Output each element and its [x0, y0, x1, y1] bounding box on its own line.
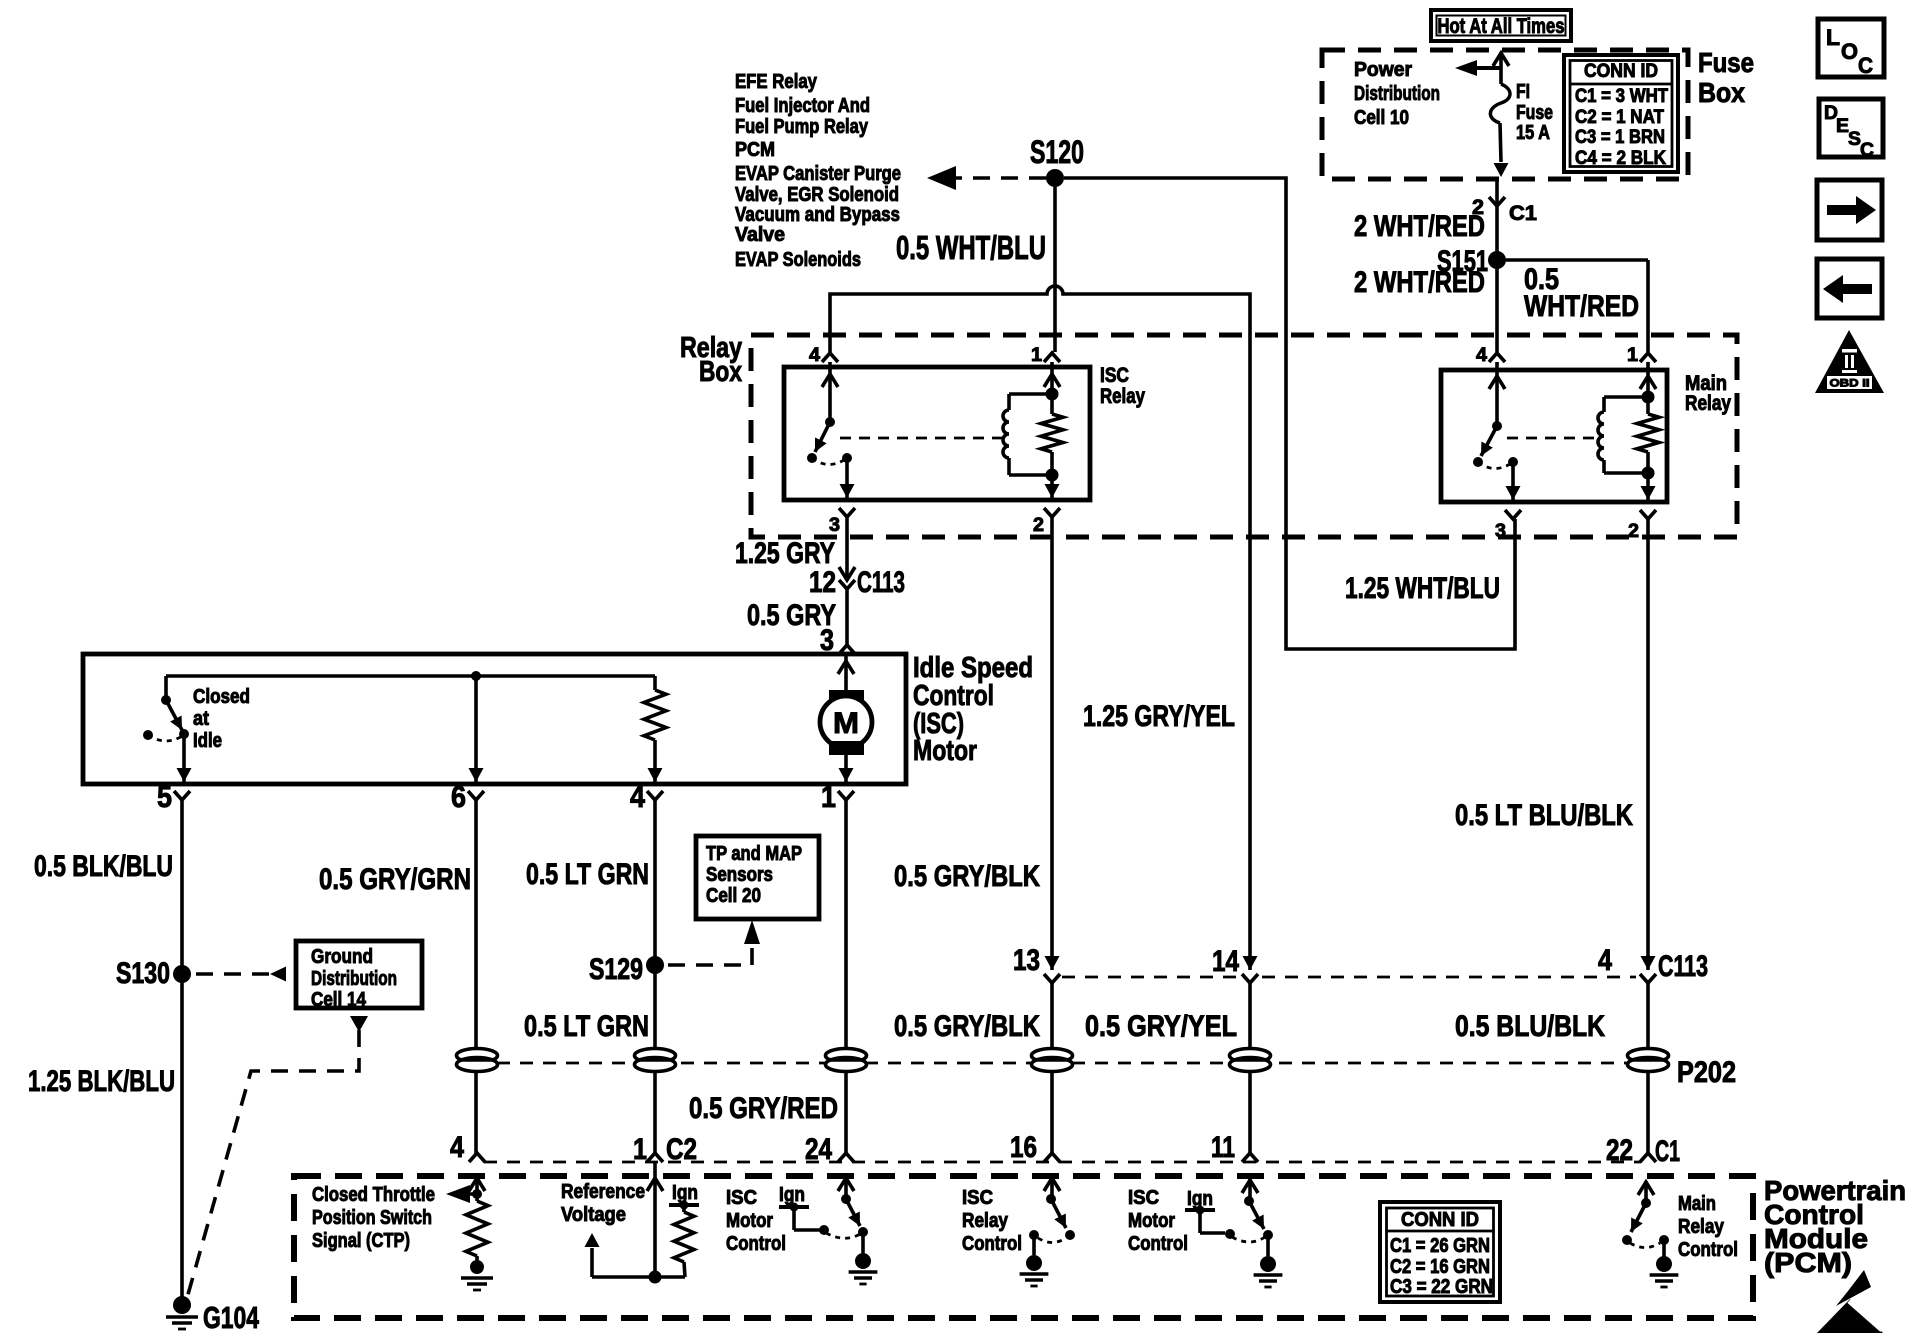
ISC motor M motor	[844, 656, 848, 690]
svg-text:Cell 14: Cell 14	[311, 989, 367, 1011]
connector P202 dashed line	[497, 1062, 1628, 1065]
svg-text:C113: C113	[857, 566, 905, 599]
relay U1 ISC Relay box	[784, 367, 1090, 500]
svg-text:12: 12	[809, 566, 836, 599]
svg-text:4: 4	[809, 345, 820, 366]
PCM pin 22 C1	[1640, 1153, 1656, 1162]
svg-text:Relay: Relay	[962, 1210, 1009, 1232]
svg-text:M: M	[833, 707, 859, 740]
svg-text:Signal (CTP): Signal (CTP)	[312, 1230, 410, 1252]
ISC motor pin 1	[838, 791, 854, 800]
svg-text:Position Switch: Position Switch	[312, 1207, 432, 1229]
svg-text:C1: C1	[1655, 1135, 1680, 1168]
svg-text:Sensors: Sensors	[706, 864, 773, 886]
wire ISC relay pin 3 to connector C113 pin 12	[845, 517, 849, 577]
svg-text:C: C	[1858, 53, 1873, 78]
dashed path ground distribution to G104	[350, 1016, 368, 1032]
PCM pin 4	[469, 1153, 485, 1162]
fuse F1 15A	[1499, 52, 1503, 84]
main relay resistor	[1646, 362, 1650, 414]
svg-text:Motor: Motor	[1128, 1210, 1175, 1232]
wire pin5 down to G104	[180, 800, 184, 1302]
PCM pin 16	[1044, 1153, 1060, 1162]
ISC motor internal bus	[166, 674, 655, 678]
icon ESD warning	[1836, 1270, 1871, 1306]
svg-text:1: 1	[633, 1133, 647, 1166]
svg-text:Control: Control	[1128, 1233, 1188, 1255]
svg-text:C1 = 3 WHT: C1 = 3 WHT	[1575, 86, 1668, 107]
PCM pin 1 C2	[647, 1153, 663, 1162]
ground distribution cell 14 box	[296, 941, 422, 1008]
svg-text:Closed Throttle: Closed Throttle	[312, 1184, 435, 1206]
svg-text:14: 14	[1212, 945, 1239, 978]
connector C113 pin 12	[839, 567, 855, 580]
svg-text:EVAP Solenoids: EVAP Solenoids	[735, 249, 861, 271]
svg-text:2 WHT/RED: 2 WHT/RED	[1354, 210, 1485, 243]
svg-text:S120: S120	[1030, 134, 1084, 170]
dashed link S129 to TP and MAP sensors	[668, 948, 752, 965]
svg-text:1.25 BLK/BLU: 1.25 BLK/BLU	[28, 1065, 175, 1098]
icon DESC	[1819, 99, 1883, 157]
wire pin6 down to PCM pin 4	[474, 800, 478, 1154]
ISC relay switch output to pin 3	[845, 458, 849, 498]
ISC relay linkage dashed	[840, 437, 1002, 440]
svg-text:Idle: Idle	[193, 730, 222, 752]
svg-text:Fuel Pump Relay: Fuel Pump Relay	[735, 116, 869, 138]
svg-text:22: 22	[1606, 1134, 1633, 1167]
PCM dashed outline	[294, 1176, 1753, 1318]
wire pin4 down to PCM pin 1	[653, 800, 657, 1154]
svg-text:Ground: Ground	[311, 946, 373, 968]
svg-text:Reference: Reference	[561, 1181, 645, 1203]
relay box dashed outline	[751, 335, 1737, 537]
svg-text:Valve, EGR Solenoid: Valve, EGR Solenoid	[735, 184, 899, 206]
wire branch to ISC relay pin 4 and pin 11 line	[830, 286, 1250, 970]
svg-text:C3 = 22 GRN: C3 = 22 GRN	[1390, 1276, 1493, 1298]
svg-text:Main: Main	[1678, 1193, 1716, 1215]
ground G104	[173, 1296, 191, 1314]
icon OBD II triangle	[1815, 330, 1884, 393]
PCM pin 11	[1242, 1153, 1258, 1162]
svg-text:Closed: Closed	[193, 686, 250, 708]
svg-text:0.5 GRY/YEL: 0.5 GRY/YEL	[1085, 1010, 1237, 1043]
ISC motor pin 6 wire	[474, 676, 478, 782]
svg-text:S129: S129	[589, 953, 643, 986]
svg-text:C113: C113	[1658, 950, 1708, 983]
svg-text:Control: Control	[1678, 1239, 1738, 1261]
svg-text:CONN ID: CONN ID	[1584, 61, 1658, 82]
svg-text:Cell 20: Cell 20	[706, 885, 761, 907]
svg-text:Valve: Valve	[735, 224, 785, 246]
svg-text:16: 16	[1010, 1131, 1037, 1164]
svg-text:ISC: ISC	[1128, 1187, 1159, 1209]
icon arrow right	[1817, 180, 1882, 240]
svg-text:2 WHT/RED: 2 WHT/RED	[1354, 266, 1485, 299]
svg-text:PCM: PCM	[735, 139, 775, 161]
svg-text:S130: S130	[116, 957, 170, 990]
svg-text:11: 11	[1211, 1131, 1235, 1164]
main relay switch output to pin 3	[1511, 462, 1515, 500]
svg-text:C2: C2	[666, 1133, 697, 1166]
wire dashed S120 to loads	[945, 176, 1046, 180]
svg-text:C1 = 26 GRN: C1 = 26 GRN	[1390, 1235, 1490, 1257]
component ISC motor box	[83, 654, 906, 784]
svg-text:0.5 GRY/RED: 0.5 GRY/RED	[689, 1092, 838, 1125]
svg-text:Vacuum and Bypass: Vacuum and Bypass	[735, 204, 900, 226]
svg-text:Relay: Relay	[1100, 385, 1145, 408]
svg-text:Ign: Ign	[779, 1184, 805, 1206]
svg-text:24: 24	[805, 1133, 832, 1166]
svg-text:Control: Control	[962, 1233, 1022, 1255]
ISC motor CTP switch	[164, 676, 168, 700]
svg-text:O: O	[1841, 39, 1858, 64]
svg-text:C4 = 2 BLK: C4 = 2 BLK	[1575, 148, 1666, 169]
svg-text:G104: G104	[203, 1300, 260, 1335]
svg-text:ISC: ISC	[962, 1187, 993, 1209]
svg-text:0.5 BLK/BLU: 0.5 BLK/BLU	[34, 850, 173, 883]
svg-text:2: 2	[1033, 515, 1044, 536]
svg-text:0.5 LT GRN: 0.5 LT GRN	[524, 1010, 649, 1043]
svg-text:15 A: 15 A	[1516, 122, 1550, 144]
ISC motor pin 4	[647, 791, 663, 800]
svg-text:4: 4	[630, 779, 646, 814]
PCM CONN ID table	[1380, 1202, 1500, 1302]
ISC relay resistor	[1050, 362, 1054, 414]
svg-text:0.5 LT GRN: 0.5 LT GRN	[526, 858, 649, 891]
connector C113 pin 13	[1045, 956, 1060, 970]
svg-text:Control: Control	[726, 1233, 786, 1255]
connector C1 pin 2	[1489, 197, 1505, 206]
svg-text:Box: Box	[1698, 77, 1745, 108]
svg-text:WHT/RED: WHT/RED	[1524, 290, 1639, 323]
svg-text:TP and MAP: TP and MAP	[706, 843, 802, 865]
connector P202 oval pin at 846	[826, 1049, 867, 1072]
svg-text:Voltage: Voltage	[561, 1204, 626, 1226]
connector C113 pin 4	[1641, 956, 1656, 970]
wire 0.5 GRY to ISC motor pin 3	[845, 589, 849, 645]
relay U2 Main Relay box	[1441, 370, 1667, 502]
svg-text:FI: FI	[1516, 81, 1530, 103]
svg-text:Box: Box	[699, 356, 742, 388]
svg-text:2: 2	[1628, 521, 1639, 542]
main relay pin 4	[1489, 353, 1505, 362]
svg-text:Relay: Relay	[1678, 1216, 1725, 1238]
wire S151 to main relay pin 1	[1506, 258, 1648, 262]
svg-text:4: 4	[450, 1131, 464, 1164]
svg-text:0.5 GRY/GRN: 0.5 GRY/GRN	[319, 863, 471, 896]
connector P202 oval pin at 1648	[1628, 1049, 1669, 1072]
wire S120 right and down to main relay pin 3 loop	[1064, 178, 1515, 649]
ISC motor resistor	[653, 676, 657, 690]
svg-text:0.5 GRY/BLK: 0.5 GRY/BLK	[894, 860, 1040, 893]
svg-text:C2 = 1 NAT: C2 = 1 NAT	[1575, 107, 1664, 128]
svg-text:OBD II: OBD II	[1830, 378, 1870, 390]
svg-text:Distribution: Distribution	[1354, 83, 1440, 105]
svg-text:0.5 WHT/BLU: 0.5 WHT/BLU	[896, 229, 1046, 266]
PCM pin 24	[838, 1153, 854, 1162]
svg-text:1: 1	[821, 779, 836, 814]
svg-text:ISC: ISC	[1100, 364, 1129, 387]
wire fuse output to S151	[1495, 179, 1499, 352]
svg-text:(PCM): (PCM)	[1764, 1247, 1852, 1278]
main relay pin 2	[1640, 510, 1656, 519]
svg-text:Motor: Motor	[726, 1210, 773, 1232]
svg-text:4: 4	[1476, 345, 1487, 366]
svg-text:0.5 BLU/BLK: 0.5 BLU/BLK	[1455, 1010, 1605, 1043]
svg-text:0.5 GRY/BLK: 0.5 GRY/BLK	[894, 1010, 1040, 1043]
connector P202 oval pin at 655	[635, 1049, 676, 1072]
svg-text:Fuse: Fuse	[1516, 102, 1553, 124]
wire pin1 down to PCM pin 24	[844, 800, 848, 1154]
main relay pin 1	[1640, 353, 1656, 362]
svg-text:Distribution: Distribution	[311, 968, 397, 990]
svg-text:13: 13	[1013, 944, 1040, 977]
ISC relay pin 2	[1044, 508, 1060, 517]
wire S120 down to ISC relay pin 1	[1053, 187, 1057, 352]
main relay coil	[1602, 397, 1606, 412]
svg-text:1.25 GRY/YEL: 1.25 GRY/YEL	[1083, 700, 1235, 733]
PCM CTP input circuit	[475, 1177, 479, 1201]
TP and MAP sensors box	[696, 836, 819, 919]
power feed Hot At All Times box	[1431, 10, 1571, 41]
wire main relay pin 2 down to PCM pin 22	[1646, 519, 1650, 970]
main relay switch	[1495, 362, 1499, 426]
svg-text:EFE Relay: EFE Relay	[735, 71, 818, 93]
ISC relay pin 4	[822, 353, 838, 362]
svg-text:6: 6	[451, 779, 466, 814]
icon arrow left	[1817, 259, 1882, 318]
svg-text:4: 4	[1598, 944, 1612, 977]
icon LOC	[1818, 19, 1884, 77]
svg-text:ISC: ISC	[726, 1187, 757, 1209]
svg-text:0.5 LT BLU/BLK: 0.5 LT BLU/BLK	[1455, 799, 1633, 832]
connector C113 dashed line	[1062, 976, 1240, 979]
svg-text:5: 5	[157, 779, 172, 814]
svg-text:Relay: Relay	[1685, 392, 1731, 415]
main relay linkage dashed	[1507, 437, 1597, 440]
svg-text:3: 3	[1495, 521, 1506, 542]
svg-text:Cell 10: Cell 10	[1354, 107, 1409, 129]
connector P202 oval pin at 477	[457, 1049, 498, 1072]
ISC motor pin 5	[174, 791, 190, 800]
svg-text:L: L	[1826, 25, 1840, 50]
svg-text:Power: Power	[1354, 59, 1412, 81]
svg-text:1: 1	[1031, 345, 1042, 366]
connector C113 pin 14	[1243, 956, 1258, 970]
svg-text:1: 1	[1627, 345, 1638, 366]
svg-text:at: at	[193, 708, 209, 730]
svg-text:3: 3	[829, 515, 840, 536]
svg-text:Hot At All Times: Hot At All Times	[1438, 15, 1565, 38]
fuse box CONN ID table	[1564, 55, 1678, 172]
dashed link S130 to ground distribution	[196, 972, 276, 976]
svg-text:C1: C1	[1509, 202, 1537, 225]
connector P202 oval pin at 1250	[1230, 1049, 1271, 1072]
ISC relay coil	[1007, 394, 1011, 410]
wire ISC relay pin 2 down to connector pin 13	[1050, 517, 1054, 970]
ISC relay switch	[828, 362, 832, 422]
svg-text:P202: P202	[1677, 1056, 1736, 1089]
PCM connector dashed line	[484, 1161, 1641, 1164]
connector P202 oval pin at 1052	[1032, 1049, 1073, 1072]
svg-text:C: C	[1860, 140, 1874, 161]
svg-text:Fuel Injector And: Fuel Injector And	[735, 95, 870, 117]
svg-text:C3 = 1 BRN: C3 = 1 BRN	[1575, 127, 1665, 148]
svg-text:Motor: Motor	[913, 735, 977, 767]
svg-text:1.25 WHT/BLU: 1.25 WHT/BLU	[1345, 572, 1500, 605]
svg-text:EVAP Canister Purge: EVAP Canister Purge	[735, 163, 901, 185]
ISC motor pin 6	[468, 791, 484, 800]
fuse box dashed outline	[1322, 50, 1688, 179]
svg-text:Fuse: Fuse	[1698, 47, 1754, 78]
ISC relay pin 1	[1044, 353, 1060, 362]
svg-text:CONN ID: CONN ID	[1401, 1209, 1479, 1231]
svg-text:C2 = 16 GRN: C2 = 16 GRN	[1390, 1256, 1490, 1278]
